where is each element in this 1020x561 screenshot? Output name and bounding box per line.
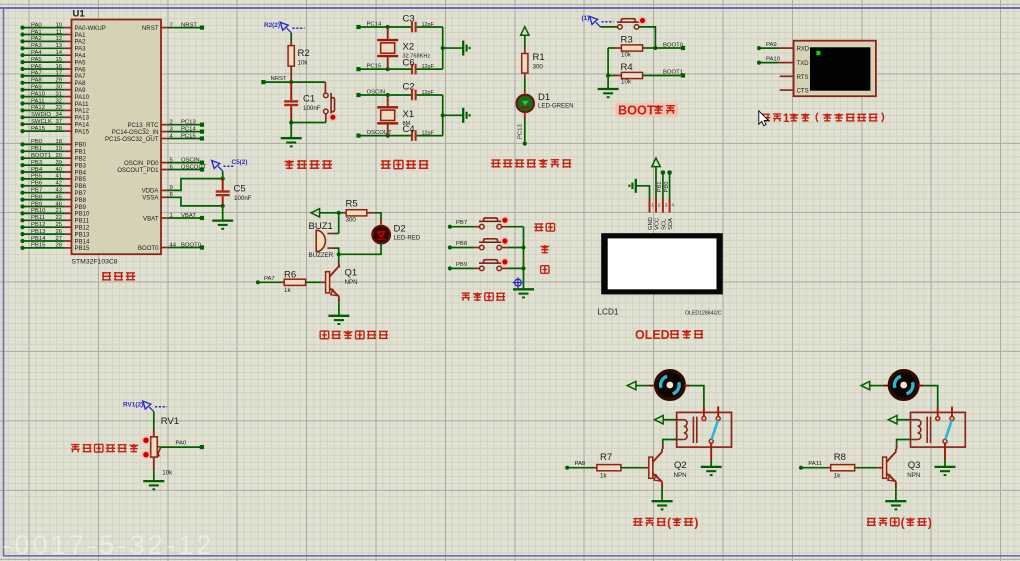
- wire NRST horizontal: [263, 81, 325, 83]
- node PB9: [448, 266, 452, 270]
- relay contacts and blade: [717, 406, 719, 416]
- svg-text:LED-RED: LED-RED: [394, 235, 421, 242]
- ground reset circuit: [290, 123, 292, 138]
- pin PA6 (16) wire PA6: [20, 67, 24, 71]
- pin PA7 (17) wire PA7: [20, 74, 24, 78]
- svg-text:PB5: PB5: [31, 174, 43, 180]
- label 继电器(风扇): [633, 521, 642, 523]
- pin PA5 (15) wire PA5: [20, 60, 24, 64]
- svg-text:PB4: PB4: [31, 167, 43, 173]
- svg-text:SDA: SDA: [668, 218, 674, 230]
- svg-text:43: 43: [55, 188, 62, 194]
- svg-text:SWDIO: SWDIO: [31, 112, 51, 118]
- svg-text:PB15: PB15: [75, 245, 91, 252]
- wire motor to relay pole: [684, 385, 690, 387]
- svg-text:PA2: PA2: [31, 36, 42, 42]
- ground buttons: [513, 288, 534, 290]
- svg-text:(: (: [901, 516, 906, 530]
- svg-text:PA15: PA15: [31, 126, 46, 132]
- pin PB8 (45) wire PB8: [20, 198, 24, 202]
- svg-text:PA15: PA15: [75, 128, 90, 135]
- svg-text:1: 1: [783, 111, 790, 125]
- svg-text:LCD1: LCD1: [598, 308, 619, 317]
- wire SDA: [669, 173, 671, 200]
- svg-text:VSSA: VSSA: [142, 195, 159, 202]
- svg-text:STM32F103C8: STM32F103C8: [72, 259, 118, 266]
- svg-text:X2: X2: [403, 42, 415, 53]
- wire BOOT button to BOOT0: [639, 27, 656, 48]
- capacitor C1 100nF: [290, 82, 292, 100]
- wire R5 to D2: [374, 213, 381, 221]
- svg-text:39: 39: [55, 160, 62, 166]
- svg-text:10k: 10k: [621, 79, 632, 86]
- svg-text:SWCLK: SWCLK: [31, 119, 52, 125]
- svg-text:PB10: PB10: [31, 208, 46, 214]
- svg-text:): ): [928, 516, 932, 530]
- wire relay common to ground: [944, 443, 946, 460]
- svg-text:1k: 1k: [600, 473, 607, 480]
- wire PC15 row: [359, 68, 412, 70]
- svg-text:OLED12864I2C: OLED12864I2C: [685, 311, 722, 317]
- wire OSCIN row: [359, 94, 412, 96]
- svg-text:PA8: PA8: [575, 461, 586, 467]
- relay coil: [911, 419, 918, 421]
- virtual terminal instrument: [794, 41, 876, 96]
- wire RV1 wiper to PA0: [157, 446, 161, 448]
- svg-text:42: 42: [55, 181, 62, 187]
- svg-text:BOOT0: BOOT0: [138, 245, 159, 252]
- wire Q1 emitter to ground: [338, 303, 340, 316]
- node C5 bottom junction: [221, 204, 225, 208]
- svg-text:SCL: SCL: [661, 218, 667, 230]
- svg-text:PB1: PB1: [31, 146, 42, 152]
- pin PC13_RTC (2) net PC13: [161, 124, 168, 126]
- svg-text:OSCOUT_PD1: OSCOUT_PD1: [117, 167, 159, 174]
- wire VDDA to C5 top node: [168, 179, 223, 191]
- resistor R6 1k: [258, 281, 281, 283]
- wire Q2 emitter to ground: [661, 488, 663, 501]
- pin OSCOUT_PD1 (6) net OSCOUT: [161, 169, 168, 171]
- node PC14: [356, 25, 360, 29]
- power arrow relay coil: [888, 416, 897, 424]
- svg-text:PC13: PC13: [181, 120, 196, 126]
- svg-text:C1: C1: [303, 94, 315, 105]
- chip U1 STM32F103C8 body: [72, 20, 162, 255]
- wire PB8 to rail: [507, 247, 523, 249]
- pin PA0-WKUP (10) wire PA0: [20, 26, 24, 30]
- wire coil to Q3 collector: [897, 440, 911, 445]
- node PA9: [757, 46, 761, 50]
- wire D1 to PC13 node: [524, 112, 526, 118]
- svg-text:D2: D2: [394, 224, 406, 235]
- svg-text:PB3: PB3: [31, 160, 43, 166]
- svg-text:14: 14: [55, 50, 62, 56]
- node PB8: [448, 245, 452, 249]
- wire junction to Q1 collector: [338, 254, 340, 262]
- svg-text:D1: D1: [538, 92, 550, 103]
- svg-text:R4: R4: [621, 62, 633, 73]
- wire PA9 to RXD: [759, 47, 779, 49]
- svg-text:NPN: NPN: [907, 472, 920, 479]
- label 主芯片: [102, 272, 111, 274]
- ground Q1: [328, 315, 349, 317]
- label 串口1窗口（模拟手机端）: [761, 117, 770, 119]
- svg-text:NPN: NPN: [674, 472, 687, 479]
- svg-text:VCC: VCC: [654, 218, 660, 230]
- relay coil: [677, 419, 684, 421]
- pin PA10 (31) wire PA10: [20, 95, 24, 99]
- svg-text:PA8: PA8: [31, 78, 42, 84]
- power arrow D1 circuit: [521, 27, 529, 36]
- svg-text:26: 26: [55, 229, 62, 235]
- svg-text:GND: GND: [648, 217, 654, 230]
- svg-text:PA1: PA1: [31, 29, 42, 35]
- svg-text:BUZZER: BUZZER: [309, 252, 334, 259]
- svg-text:-0017-5-32-12: -0017-5-32-12: [2, 530, 215, 560]
- svg-text:33: 33: [55, 105, 62, 111]
- svg-text:PA0: PA0: [176, 440, 187, 446]
- label 声光报警电路: [320, 330, 329, 332]
- svg-text:C3: C3: [403, 13, 415, 24]
- svg-text:C2: C2: [403, 81, 415, 92]
- svg-text:PB9: PB9: [31, 201, 42, 207]
- wire PA10 to TXD: [759, 62, 779, 64]
- ground Q3: [885, 500, 906, 502]
- node PC13 bottom: [523, 142, 527, 146]
- svg-text:32.768KHz: 32.768KHz: [403, 54, 431, 60]
- pin PA8 (29) wire PA8: [20, 81, 24, 85]
- svg-text:12: 12: [55, 36, 62, 42]
- ground BOOT circuit: [598, 88, 619, 90]
- svg-text:PA9: PA9: [31, 85, 42, 91]
- svg-text:PB12: PB12: [31, 222, 45, 228]
- label 加: [540, 245, 549, 247]
- svg-text:11: 11: [56, 29, 62, 35]
- svg-text:10: 10: [55, 22, 62, 28]
- node OSCOUT: [356, 134, 360, 138]
- svg-text:R8: R8: [834, 452, 846, 463]
- wire PB7 to rail: [507, 226, 523, 228]
- wire button to C1 bottom: [291, 122, 326, 124]
- svg-text:28: 28: [55, 243, 62, 249]
- relay 继电器(风扇) body: [677, 412, 732, 447]
- svg-text:PA6: PA6: [31, 64, 42, 70]
- rail to ground (rotated): [442, 95, 444, 136]
- svg-text:OSCOUT: OSCOUT: [181, 164, 207, 170]
- wire D2 bottom to junction: [339, 244, 381, 255]
- pin PA4 (14) wire PA4: [20, 53, 24, 57]
- resistor R4 10k: [608, 75, 614, 77]
- svg-text:R1: R1: [533, 52, 545, 63]
- svg-text:10k: 10k: [162, 470, 173, 477]
- svg-text:41: 41: [55, 174, 62, 180]
- pin CTS stub: [780, 89, 794, 91]
- rail to ground (rotated): [442, 27, 444, 69]
- svg-text:LED-GREEN: LED-GREEN: [538, 103, 574, 110]
- node BOOT1: [643, 75, 683, 77]
- label 晶振电路: [381, 164, 391, 166]
- power arrow OLED VCC: [652, 158, 660, 167]
- motor 继电器(风扇): [656, 371, 684, 399]
- svg-text:R6: R6: [284, 269, 296, 280]
- svg-text:PB0: PB0: [31, 139, 43, 145]
- svg-text:19: 19: [55, 146, 62, 152]
- pin PB0 (18) wire PB0: [20, 142, 24, 146]
- svg-text:BOOT0: BOOT0: [181, 242, 202, 248]
- pin PB6 (42) wire PB6: [20, 184, 24, 188]
- svg-text:10k: 10k: [621, 52, 632, 59]
- svg-text:100nF: 100nF: [234, 195, 252, 202]
- svg-text:TXD: TXD: [797, 61, 810, 67]
- svg-text:R7: R7: [600, 452, 612, 463]
- relay contacts and blade: [951, 406, 953, 416]
- svg-text:38: 38: [55, 126, 62, 132]
- svg-text:PC13: PC13: [518, 124, 524, 139]
- ground OLED GND (rotated): [635, 179, 637, 193]
- pin PA2 (12) wire PA2: [20, 39, 24, 43]
- power arrow relay coil: [655, 416, 664, 424]
- svg-text:VBAT: VBAT: [143, 215, 159, 222]
- label 独立按键: [462, 292, 470, 294]
- resistor R2 10k: [290, 33, 292, 41]
- left rail BOOT divider: [607, 48, 609, 89]
- pin NRST (7) net NRST: [161, 27, 168, 29]
- svg-text:BUZ1: BUZ1: [309, 221, 333, 232]
- svg-text:21: 21: [55, 208, 62, 214]
- power arrow motor 继电器(净化): [861, 381, 870, 389]
- wire coil to Q2 collector: [663, 440, 677, 445]
- ground below C5: [222, 206, 224, 220]
- pin PA14 (37) wire SWCLK: [20, 122, 24, 126]
- svg-text:BOOT1: BOOT1: [663, 69, 683, 75]
- pin PB10 (21) wire PB10: [20, 211, 24, 215]
- wire motor to relay pole: [918, 385, 924, 387]
- sheet border: [0, 7, 1020, 9]
- svg-text:R5: R5: [346, 199, 358, 210]
- label 复位电路: [285, 160, 295, 162]
- svg-text:): ): [694, 516, 698, 530]
- svg-text:PA5: PA5: [31, 57, 42, 63]
- pin VDDA (9): [161, 189, 168, 191]
- svg-text:20: 20: [55, 153, 62, 159]
- terminal cursor: [816, 51, 820, 55]
- push button reset: [324, 82, 326, 93]
- motor 继电器(净化): [890, 371, 918, 399]
- svg-text:34: 34: [55, 112, 62, 118]
- svg-text:BOOT1: BOOT1: [31, 153, 51, 159]
- svg-text:13: 13: [55, 43, 62, 49]
- ground relay 继电器(净化): [935, 466, 956, 468]
- node PA10: [757, 61, 761, 65]
- power arrow alarm: [311, 209, 320, 217]
- svg-text:C5(2): C5(2): [232, 159, 248, 166]
- push button PB9: [450, 267, 474, 269]
- node PA0: [200, 445, 204, 449]
- node PB0 (SDA): [667, 170, 672, 175]
- node PA7: [256, 280, 260, 284]
- pin PC14-OSC32_IN (3) net PC14: [161, 131, 168, 133]
- svg-text:BOOT0: BOOT0: [663, 42, 684, 48]
- capacitor C6 12pF: [411, 64, 413, 75]
- svg-text:29: 29: [55, 78, 62, 84]
- svg-text:100nF: 100nF: [303, 105, 321, 112]
- pin PA12 (33) wire PA12: [20, 108, 24, 112]
- svg-text:PB6: PB6: [31, 181, 43, 187]
- wire C3 to rail: [417, 26, 443, 28]
- resistor R8 1k: [801, 467, 827, 469]
- svg-text:1: 1: [651, 202, 654, 207]
- node C5 top junction: [222, 171, 224, 179]
- svg-text:RTS: RTS: [797, 75, 809, 81]
- svg-text:PB8: PB8: [31, 194, 43, 200]
- svg-text:PA7: PA7: [31, 71, 42, 77]
- svg-text:PC15-OSC32_OUT: PC15-OSC32_OUT: [105, 136, 159, 143]
- svg-text:46: 46: [55, 201, 62, 207]
- resistor R3 10k: [608, 47, 614, 49]
- svg-text:16: 16: [55, 64, 62, 70]
- pin PA11 (32) wire PA11: [20, 101, 24, 105]
- node PC15: [356, 67, 360, 71]
- label 程序运行指示灯: [491, 162, 501, 164]
- svg-text:X1: X1: [403, 109, 415, 120]
- potentiometer RV1 10k: [153, 412, 155, 429]
- wire SCL: [662, 173, 664, 200]
- pin PB15 (28) wire PB15: [20, 246, 24, 250]
- svg-text:PA10: PA10: [31, 91, 46, 97]
- pin VBAT (1) net VBAT: [161, 217, 168, 219]
- wire OSCOUT row: [359, 135, 412, 137]
- svg-text:Q1: Q1: [345, 267, 358, 278]
- pin PA3 (13) wire PA3: [20, 46, 24, 50]
- svg-text:PB9: PB9: [456, 262, 467, 268]
- pin RTS stub: [780, 75, 794, 77]
- wire relay common to ground: [710, 443, 712, 460]
- wire GND pin: [636, 186, 650, 199]
- svg-text:RV1: RV1: [161, 416, 179, 427]
- svg-text:CTS: CTS: [797, 89, 809, 95]
- display LCD1 OLED12864I2C body: [601, 233, 723, 294]
- svg-text:15: 15: [55, 57, 62, 63]
- svg-text:32: 32: [55, 98, 62, 104]
- svg-text:22: 22: [55, 215, 62, 221]
- svg-text:45: 45: [55, 194, 62, 200]
- svg-text:C5: C5: [234, 184, 246, 195]
- svg-text:1k: 1k: [834, 473, 841, 480]
- svg-text:R2: R2: [298, 48, 310, 59]
- svg-text:40: 40: [55, 167, 62, 173]
- svg-text:OSCIN: OSCIN: [181, 157, 200, 163]
- capacitor C5 100nF: [222, 179, 224, 191]
- svg-text:PB7: PB7: [456, 220, 467, 226]
- ground Q2: [652, 500, 673, 502]
- svg-text:RXD: RXD: [797, 47, 810, 53]
- svg-text:PB15: PB15: [31, 243, 46, 249]
- pin VSSA (8): [161, 196, 168, 198]
- pin PB13 (26) wire PB13: [20, 232, 24, 236]
- svg-text:PA3: PA3: [31, 43, 42, 49]
- svg-text:U1: U1: [73, 9, 86, 20]
- diode D1 LED-GREEN: [524, 90, 526, 95]
- wire PB9 to rail: [507, 267, 523, 269]
- buttons common rail: [523, 227, 525, 289]
- svg-text:3: 3: [665, 202, 668, 207]
- probe C5(2): [218, 167, 223, 172]
- svg-text:PA11: PA11: [808, 461, 822, 467]
- svg-text:25: 25: [55, 222, 62, 228]
- origin marker: [515, 279, 522, 286]
- svg-text:PA12: PA12: [31, 105, 45, 111]
- capacitor C3 12pF: [411, 22, 413, 33]
- wire VSSA to C5 bottom node: [168, 197, 223, 206]
- relay 继电器(净化) body: [911, 412, 966, 447]
- svg-text:31: 31: [55, 91, 62, 97]
- pin PB4 (40) wire PB4: [20, 170, 24, 174]
- svg-text:OLED: OLED: [635, 328, 670, 342]
- svg-text:Q3: Q3: [908, 460, 921, 471]
- svg-text:17: 17: [55, 71, 62, 77]
- node PB7: [448, 225, 452, 229]
- pin PA1 (11) wire PA1: [20, 32, 24, 36]
- svg-text:PB7: PB7: [31, 188, 42, 194]
- label BOOT电路 highlighted: [616, 103, 679, 117]
- pin PB1 (19) wire PB1: [20, 149, 24, 153]
- wire R1 to D1: [524, 78, 526, 90]
- svg-text:4: 4: [671, 202, 674, 207]
- pin PB9 (46) wire PB9: [20, 204, 24, 208]
- svg-text:30: 30: [55, 85, 62, 91]
- push button BOOT: [601, 26, 618, 28]
- node PA11: [799, 466, 803, 470]
- crystal X1 8M: [387, 95, 389, 107]
- node OSCIN: [356, 93, 360, 97]
- svg-text:PB11: PB11: [31, 215, 45, 221]
- wire C6 to rail: [417, 68, 443, 70]
- svg-text:BOOT: BOOT: [618, 103, 655, 117]
- node BOOT0: [655, 47, 683, 49]
- push button PB7: [450, 226, 474, 228]
- pin PA9 (30) wire PA9: [20, 88, 24, 92]
- wire C4 to rail: [417, 135, 443, 137]
- resistor R1 300: [524, 49, 526, 54]
- ground RV1: [153, 469, 155, 481]
- diode D2 LED-RED: [380, 221, 382, 227]
- label 继电器(净化): [867, 517, 876, 519]
- pin PB14 (27) wire PB14: [20, 239, 24, 243]
- svg-text:PB13: PB13: [31, 229, 46, 235]
- svg-text:18: 18: [55, 139, 62, 145]
- ground relay 继电器(风扇): [701, 466, 722, 468]
- node PB1 (SCL): [661, 170, 666, 175]
- resistor R5 300: [343, 212, 346, 214]
- svg-text:NPN: NPN: [345, 279, 358, 286]
- pin PB2 (20) wire BOOT1: [20, 156, 24, 160]
- pin PA15 (38) wire PA15: [20, 129, 24, 133]
- svg-text:PA10: PA10: [766, 57, 781, 63]
- svg-text:RV1(2): RV1(2): [123, 402, 143, 409]
- transistor Q1 NPN: [326, 272, 330, 293]
- pin PB12 (25) wire PB12: [20, 225, 24, 229]
- svg-text:2: 2: [658, 202, 661, 207]
- svg-text:PC15: PC15: [181, 133, 196, 139]
- svg-text:R2(2): R2(2): [264, 22, 280, 29]
- node PA8: [565, 466, 569, 470]
- pin PA13 (34) wire SWDIO: [20, 115, 24, 119]
- pin OSCIN_PD0 (5) net OSCIN: [161, 162, 168, 164]
- resistor R7 1k: [567, 467, 593, 469]
- mouse cursor: [759, 111, 769, 126]
- wire Q3 emitter to ground: [895, 488, 897, 501]
- node NRST: [261, 80, 265, 84]
